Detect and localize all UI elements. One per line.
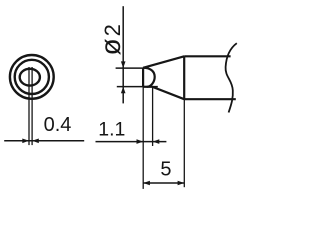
chisel edge left line (0.4 slot) bbox=[28, 67, 30, 145]
front view outer circle (tip shank end view) bbox=[10, 55, 54, 99]
side view tip D-arc bbox=[143, 68, 155, 87]
svg-text:0.4: 0.4 bbox=[44, 114, 72, 136]
dimension phi2 vertical line bbox=[122, 6, 124, 103]
side view break squiggle bbox=[226, 43, 237, 112]
dimension phi2 top extension line bbox=[116, 67, 144, 69]
chisel edge right line (0.4 slot) bbox=[31, 67, 33, 145]
side view top slant line bbox=[143, 56, 184, 68]
dimension 5 right extension line bbox=[183, 99, 185, 187]
dimension 0.4 line bbox=[4, 140, 84, 142]
dimension 5 left extension line (tip face extended) bbox=[142, 87, 144, 189]
dimension 1.1 left arrow bbox=[137, 139, 144, 144]
dimension 1.1 right extension line bbox=[152, 88, 154, 147]
side view tip face line bbox=[142, 68, 144, 87]
side view cylinder bottom edge bbox=[184, 98, 236, 100]
svg-text:1.1: 1.1 bbox=[98, 119, 125, 141]
dimension 0.4 left arrow bbox=[22, 139, 29, 144]
dimension 5 left arrow (points left) bbox=[143, 181, 150, 186]
dimension 1.1 line bbox=[96, 141, 167, 143]
dimension phi2 top arrow (points down) bbox=[121, 61, 126, 68]
dimension 5 line bbox=[143, 182, 184, 184]
dimension 1.1 right arrow bbox=[153, 139, 160, 144]
dimension 0.4 right arrow bbox=[32, 139, 39, 144]
side view bottom flat and slant line bbox=[143, 87, 184, 99]
side view cylinder top edge bbox=[184, 55, 230, 57]
svg-text:ø2: ø2 bbox=[95, 24, 126, 55]
front view inner circle bbox=[15, 60, 49, 94]
dimension phi2 bottom extension line bbox=[117, 86, 158, 88]
front view bevel ellipse bbox=[20, 69, 40, 86]
side view cylinder left edge bbox=[183, 56, 185, 99]
dimension 5 right arrow (points right) bbox=[178, 181, 185, 186]
dimension phi2 bottom arrow (points up) bbox=[121, 87, 126, 94]
svg-text:5: 5 bbox=[160, 159, 171, 181]
